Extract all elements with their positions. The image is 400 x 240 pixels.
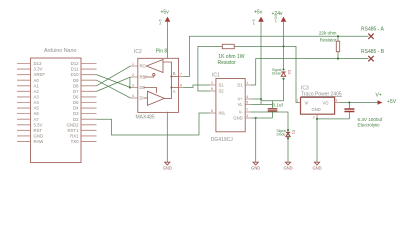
svg-text:0.1uf: 0.1uf xyxy=(273,103,284,108)
IC2 right stubs xyxy=(179,77,184,88)
wire D10 to DE xyxy=(97,75,131,88)
svg-text:S2: S2 xyxy=(219,89,225,94)
svg-text:D1: D1 xyxy=(292,130,296,134)
wire D8 to RO xyxy=(97,66,131,86)
svg-text:AREF: AREF xyxy=(34,72,46,77)
wire D1 to RS485-B line xyxy=(251,59,369,85)
svg-text:A0: A0 xyxy=(34,78,40,83)
IC2 receiver triangle xyxy=(147,60,164,73)
svg-text:+5v: +5v xyxy=(254,10,263,16)
IC2 right pin labels B A xyxy=(173,71,176,94)
svg-text:2: 2 xyxy=(132,73,134,77)
svg-text:D12: D12 xyxy=(71,61,79,66)
wire B to RS485-A xyxy=(184,36,369,76)
wire VL xyxy=(251,104,273,106)
svg-text:D2: D2 xyxy=(73,117,79,122)
svg-text:D8: D8 xyxy=(73,83,79,88)
svg-text:IN1: IN1 xyxy=(219,111,226,116)
wire IC3 GND down xyxy=(316,119,318,162)
svg-text:RS485 - B: RS485 - B xyxy=(361,49,385,55)
IC2 DI inside wire xyxy=(144,97,147,99)
svg-text:1: 1 xyxy=(132,62,134,66)
diode D2 signal diode xyxy=(282,68,284,70)
IC2 pin names xyxy=(140,64,148,101)
svg-text:Pin 8: Pin 8 xyxy=(156,48,168,54)
svg-text:D11: D11 xyxy=(71,67,79,72)
svg-text:B: B xyxy=(173,71,176,76)
svg-text:5.5V: 5.5V xyxy=(34,122,43,127)
resistor R1 1K ohm 1W xyxy=(222,44,234,48)
svg-text:+5V: +5V xyxy=(387,99,397,105)
svg-text:6: 6 xyxy=(180,83,182,87)
svg-text:A7: A7 xyxy=(34,117,40,122)
wire +5v down to V+/VL xyxy=(260,22,262,105)
svg-text:4: 4 xyxy=(132,94,134,98)
diode D1 signal diode xyxy=(287,129,289,131)
svg-text:2: 2 xyxy=(211,81,213,85)
svg-text:IC1: IC1 xyxy=(212,73,220,79)
svg-text:Diode: Diode xyxy=(277,132,286,136)
svg-text:2: 2 xyxy=(313,115,315,119)
wire D2 to IN1 xyxy=(97,113,211,135)
svg-text:A2: A2 xyxy=(34,89,40,94)
svg-text:RAW: RAW xyxy=(34,139,45,144)
ground (IC1) xyxy=(251,162,260,170)
IC1 left stubs xyxy=(210,85,216,113)
svg-text:GND: GND xyxy=(233,116,242,121)
IC2 left stubs pins 1-4 xyxy=(131,66,138,98)
Arduino left pin labels xyxy=(34,61,46,144)
svg-text:1: 1 xyxy=(296,98,298,102)
svg-text:D4: D4 xyxy=(73,106,79,111)
svg-text:A: A xyxy=(173,89,176,94)
wire GND pin xyxy=(251,117,273,119)
svg-text:1: 1 xyxy=(246,81,248,85)
svg-text:DG419CJ: DG419CJ xyxy=(211,137,233,143)
svg-text:RST: RST xyxy=(34,128,43,133)
svg-text:D13: D13 xyxy=(34,61,42,66)
svg-text:GND: GND xyxy=(34,134,44,139)
wire +5v to pin8 xyxy=(167,22,169,59)
junction DE xyxy=(129,86,131,88)
Arduino right pin labels xyxy=(67,61,80,144)
capacitor C2 electrolytic xyxy=(317,103,349,119)
svg-text:3: 3 xyxy=(132,83,134,87)
svg-text:Resistor: Resistor xyxy=(218,60,237,66)
svg-text:D9: D9 xyxy=(73,78,79,83)
svg-text:3: 3 xyxy=(336,98,338,102)
ground (IC3) xyxy=(312,162,321,170)
svg-text:RST1: RST1 xyxy=(68,128,80,133)
wire S2 to 1K and +24 junction, to IC3 VI xyxy=(198,46,301,102)
IC1 right stubs xyxy=(245,85,251,118)
svg-text:6.3V 1000uf: 6.3V 1000uf xyxy=(358,117,384,122)
svg-text:DI: DI xyxy=(140,96,144,101)
svg-text:VI: VI xyxy=(305,100,309,105)
svg-text:>+5: >+5 xyxy=(159,19,163,25)
svg-text:RO: RO xyxy=(140,64,147,69)
svg-text:A1: A1 xyxy=(34,83,40,88)
wire V- to signal diode xyxy=(251,112,288,162)
svg-text:Resistor: Resistor xyxy=(320,38,337,43)
svg-text:GND: GND xyxy=(312,107,321,112)
svg-text:GND: GND xyxy=(312,165,321,170)
svg-text:GND: GND xyxy=(163,165,172,170)
wire RE-DE tie xyxy=(129,77,131,88)
svg-text:A5: A5 xyxy=(34,106,40,111)
svg-text:TX0: TX0 xyxy=(71,139,79,144)
ground (diode) xyxy=(283,162,292,170)
IC2 RE bubble xyxy=(144,76,154,77)
svg-text:V+: V+ xyxy=(237,97,243,102)
svg-text:GND: GND xyxy=(283,165,292,170)
svg-text:8: 8 xyxy=(211,87,213,91)
Arduino right pin stubs xyxy=(81,64,97,142)
svg-text:7: 7 xyxy=(180,72,182,76)
wire D7 to RE xyxy=(97,77,131,91)
svg-text:A3: A3 xyxy=(34,95,40,100)
svg-text:D10: D10 xyxy=(71,72,79,77)
svg-text:Electrolytic: Electrolytic xyxy=(358,122,381,127)
IC2 driver triangle xyxy=(147,91,164,105)
capacitor C1 0.1uf xyxy=(268,109,278,111)
Arduino left pin stubs xyxy=(17,64,31,142)
svg-text:3.3V: 3.3V xyxy=(34,67,43,72)
IC1 pin names xyxy=(219,83,226,116)
wire V+ to +5v xyxy=(251,98,261,100)
svg-text:VL: VL xyxy=(238,102,244,107)
svg-text:V+: V+ xyxy=(376,93,382,99)
svg-text:RX1: RX1 xyxy=(70,134,79,139)
svg-text:3: 3 xyxy=(246,114,248,118)
IC2 GND pin 5 wire xyxy=(166,112,168,162)
svg-text:Diode: Diode xyxy=(272,72,281,76)
wire +24v down through diode xyxy=(261,22,284,101)
svg-text:D7: D7 xyxy=(73,89,79,94)
junction at +24v line xyxy=(282,45,284,47)
svg-text:6: 6 xyxy=(211,109,213,113)
IC2 interior net to B and A xyxy=(163,62,179,98)
svg-text:>+24: >+24 xyxy=(274,15,278,22)
IC2 DE inside wire xyxy=(144,88,157,93)
svg-text:5: 5 xyxy=(246,100,248,104)
svg-text:+5v: +5v xyxy=(161,10,170,16)
svg-text:22k ohm: 22k ohm xyxy=(319,31,337,36)
wire VO to V+ arrow xyxy=(339,102,377,104)
svg-text:GND2: GND2 xyxy=(67,122,80,127)
svg-text:GND: GND xyxy=(251,165,260,170)
svg-text:S1: S1 xyxy=(219,83,225,88)
svg-text:MAX485: MAX485 xyxy=(136,114,155,120)
svg-text:D1: D1 xyxy=(237,83,243,88)
wire D9 to DI xyxy=(97,80,131,98)
svg-text:V-: V- xyxy=(239,110,244,115)
svg-text:A4: A4 xyxy=(34,100,40,105)
svg-text:Arduino Nano: Arduino Nano xyxy=(44,48,76,54)
wire GND down xyxy=(255,118,257,162)
wire A to S1 xyxy=(184,85,211,88)
svg-text:7: 7 xyxy=(246,108,248,112)
svg-text:RS485 - A: RS485 - A xyxy=(361,27,384,33)
svg-text:VO: VO xyxy=(323,100,330,105)
svg-text:D6: D6 xyxy=(73,95,79,100)
svg-text:A6: A6 xyxy=(34,111,40,116)
svg-text:>+5: >+5 xyxy=(252,19,256,25)
svg-text:D2: D2 xyxy=(287,70,291,74)
svg-text:D5: D5 xyxy=(73,100,79,105)
svg-text:D3: D3 xyxy=(73,111,79,116)
ground (MAX485) xyxy=(163,162,172,170)
svg-text:4: 4 xyxy=(246,95,248,99)
IC3 stubs xyxy=(296,103,340,119)
svg-text:IC2: IC2 xyxy=(134,49,142,55)
